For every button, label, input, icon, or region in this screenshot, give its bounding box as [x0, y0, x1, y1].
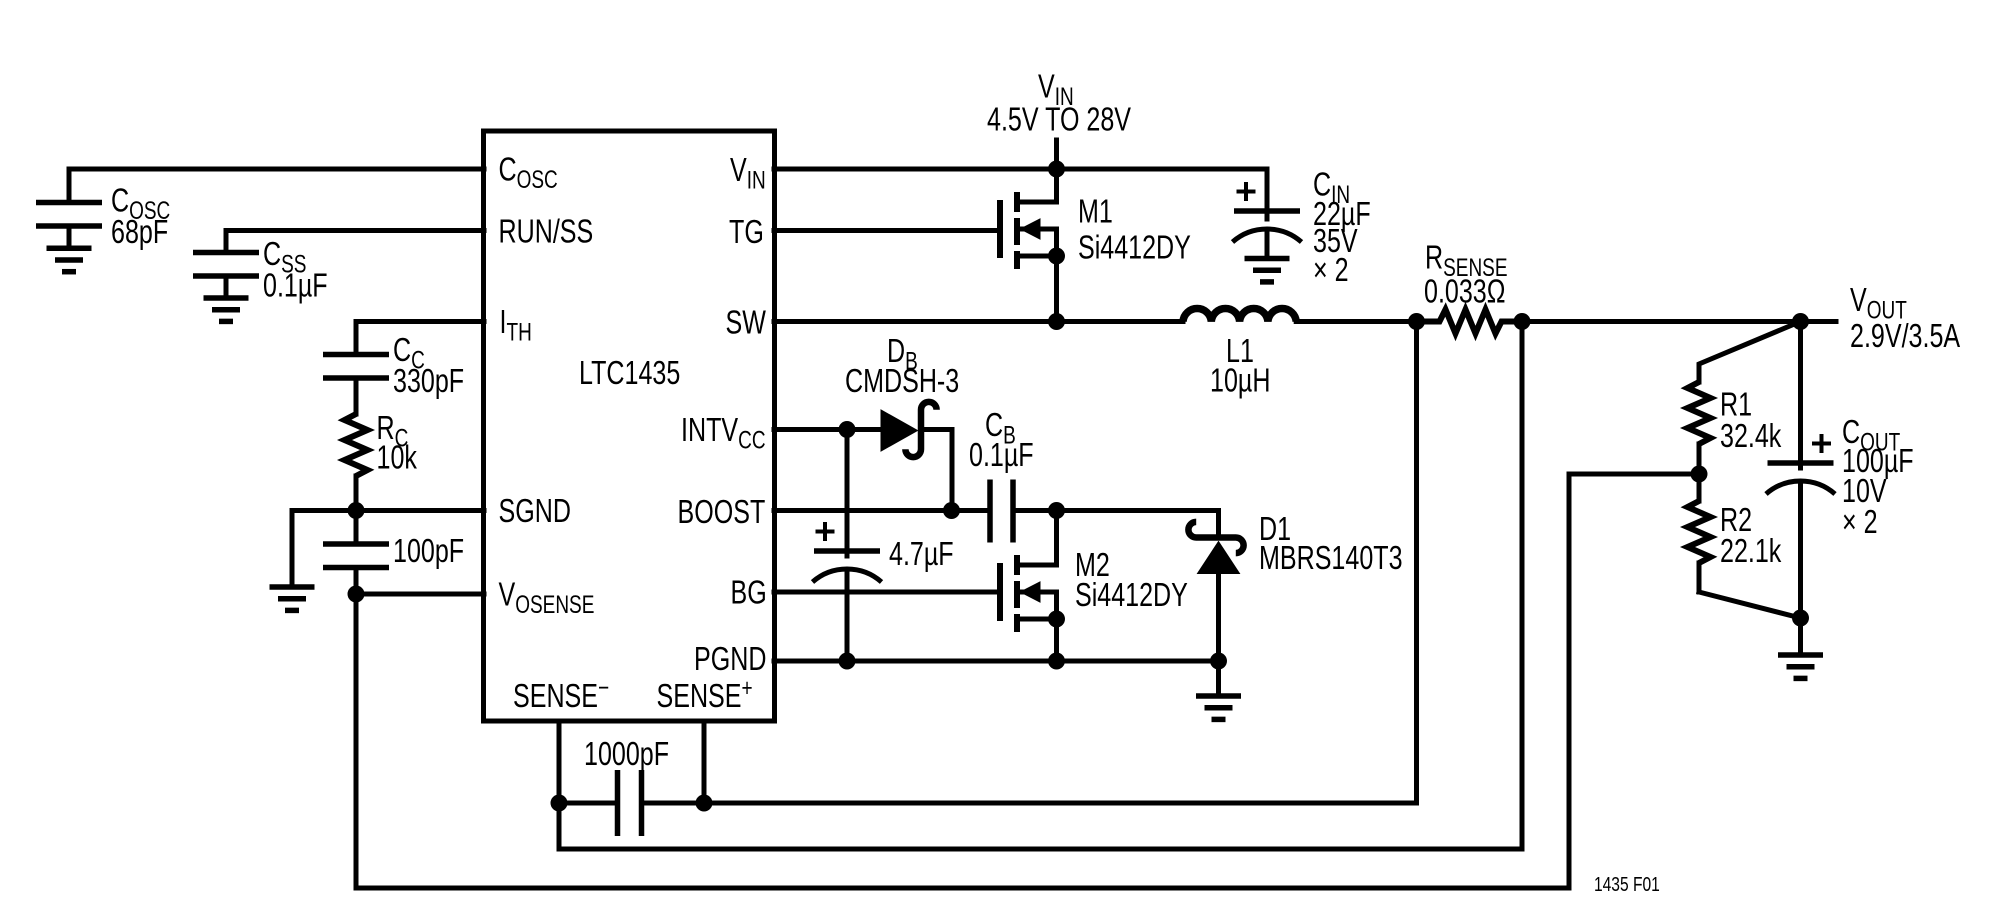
junction PGND/D1 node [1210, 653, 1227, 670]
capacitor CC 330pF symbol [323, 352, 389, 358]
junction SENSE+ / 1000pF node [696, 795, 713, 812]
wire R2 to output ground [1699, 592, 1801, 618]
svg-text:SENSE+: SENSE+ [657, 673, 753, 714]
resistor R1 32.4k [1688, 382, 1711, 444]
wire BOOST pin to CB [774, 508, 987, 513]
svg-text:330pF: 330pF [393, 363, 464, 400]
junction feedback divider node [1691, 466, 1708, 483]
diode D1 MBRS140T3 symbol [1188, 522, 1243, 553]
wire SENSE- pin down [557, 721, 562, 849]
transistor M2 Si4412DY [997, 563, 1003, 621]
resistor RC 10k [345, 414, 368, 476]
wire INTVCC pin to DB anode [774, 427, 881, 432]
ground at COUT [1798, 618, 1803, 652]
svg-text:LTC1435: LTC1435 [579, 355, 680, 392]
svg-text:× 2: × 2 [1842, 504, 1878, 541]
wire SENSE+ run to RSENSE left [704, 322, 1417, 804]
wire BG pin to M2 gate [774, 590, 998, 595]
wire VOUT to R1 [1699, 322, 1801, 383]
svg-text:SW: SW [726, 304, 767, 341]
svg-text:BG: BG [731, 574, 767, 611]
wire SGND pin to ground [292, 511, 484, 585]
capacitor 100pF symbol [354, 511, 359, 542]
junction M2 source node [1048, 611, 1065, 628]
junction VIN/M1 drain node [1048, 161, 1065, 178]
junction SW node [1048, 313, 1065, 330]
svg-text:0.1µF: 0.1µF [263, 267, 328, 304]
svg-text:4.5V TO 28V: 4.5V TO 28V [987, 101, 1131, 138]
junction PGND/M2 node [1048, 653, 1065, 670]
wire SENSE+ pin down [702, 721, 707, 803]
wire VOSENSE pin [356, 592, 484, 597]
svg-text:100pF: 100pF [393, 533, 464, 570]
ground at CIN [1245, 256, 1290, 262]
svg-text:1000pF: 1000pF [584, 736, 669, 773]
svg-text:BOOST: BOOST [678, 494, 766, 531]
ground at PGND [1216, 661, 1221, 693]
svg-text:4.7µF: 4.7µF [889, 536, 954, 573]
junction SENSE- / 1000pF node [551, 795, 568, 812]
svg-text:TG: TG [729, 214, 764, 251]
wire L1 to RSENSE [1296, 319, 1416, 324]
svg-text:0.033Ω: 0.033Ω [1424, 273, 1505, 310]
wire COSC pin to COSC cap [69, 169, 484, 200]
junction INTVCC node [839, 421, 856, 438]
svg-text:1435 F01: 1435 F01 [1594, 873, 1660, 896]
junction SGND/RC node [348, 502, 365, 519]
svg-text:Si4412DY: Si4412DY [1075, 577, 1188, 614]
wire RUN/SS pin to CSS cap [226, 231, 484, 251]
wire VOUT rail [1522, 319, 1836, 324]
svg-text:CMDSH-3: CMDSH-3 [845, 363, 959, 400]
wire VIN supply stub [1054, 140, 1059, 169]
svg-text:SGND: SGND [499, 493, 571, 530]
capacitor COSC 68pF symbol [36, 200, 102, 206]
junction RSENSE left node [1408, 313, 1425, 330]
wire SW pin to L1 [774, 319, 1183, 324]
svg-text:MBRS140T3: MBRS140T3 [1259, 540, 1403, 577]
ground at CSS [204, 295, 249, 301]
junction M1 source node [1048, 248, 1065, 265]
capacitor CSS 0.1uF symbol [193, 250, 259, 256]
capacitor COUT symbol [1798, 322, 1803, 469]
resistor RSENSE 0.033ohm [1417, 310, 1523, 334]
junction VOUT node [1792, 313, 1809, 330]
junction output ground node [1792, 610, 1809, 627]
wire TG pin to M1 gate [774, 228, 998, 233]
svg-text:22.1k: 22.1k [1720, 533, 1782, 570]
svg-text:10µH: 10µH [1210, 362, 1270, 399]
svg-text:RUN/SS: RUN/SS [499, 213, 594, 250]
wire VOSENSE feedback run [356, 474, 1699, 888]
svg-text:10k: 10k [377, 439, 418, 476]
wire VIN pin to CIN [774, 167, 1267, 172]
junction VOSENSE/100pF node [348, 586, 365, 603]
svg-text:68pF: 68pF [111, 214, 168, 251]
svg-text:PGND: PGND [694, 641, 766, 678]
ground at COSC [47, 246, 92, 252]
svg-text:Si4412DY: Si4412DY [1078, 229, 1191, 266]
junction PGND/4.7uF node [839, 653, 856, 670]
IC U1 LTC1435 body [484, 131, 775, 721]
wire PGND pin to D1 [774, 659, 1219, 664]
capacitor CB 0.1uF symbol [987, 480, 993, 543]
transistor M1 Si4412DY [997, 200, 1003, 258]
svg-text:2.9V/3.5A: 2.9V/3.5A [1850, 318, 1961, 355]
junction RSENSE right node [1514, 313, 1531, 330]
junction BOOST/DB node [943, 502, 960, 519]
inductor L1 10uH [1183, 308, 1296, 321]
svg-text:M1: M1 [1078, 193, 1113, 230]
capacitor 1000pF symbol [559, 801, 615, 806]
capacitor 4.7uF symbol [845, 430, 850, 557]
svg-text:× 2: × 2 [1313, 252, 1349, 289]
diode DB CMDSH-3 symbol [881, 410, 918, 451]
capacitor CIN symbol [1265, 169, 1270, 219]
svg-text:0.1µF: 0.1µF [969, 437, 1034, 474]
wire SENSE- run to RSENSE right [559, 322, 1522, 850]
wire DB cathode to BOOST [925, 430, 952, 511]
wire ITH pin to CC cap [356, 322, 484, 353]
ground at SGND [270, 584, 315, 590]
junction CB/SW node [1048, 502, 1065, 519]
resistor R2 22.1k [1697, 474, 1702, 501]
wire CB to D1 top [1015, 511, 1219, 536]
svg-text:32.4k: 32.4k [1720, 418, 1782, 455]
svg-text:SENSE−: SENSE− [513, 673, 609, 714]
